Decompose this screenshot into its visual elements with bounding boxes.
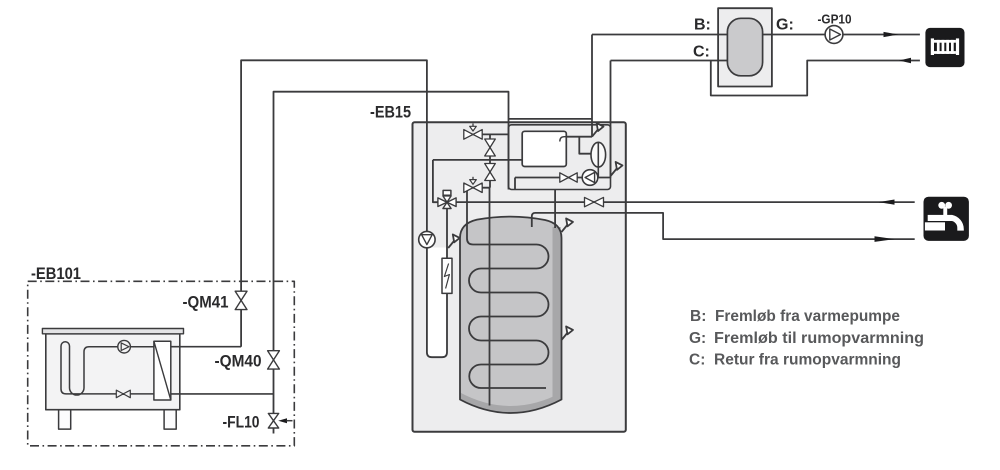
vessel tank	[727, 18, 762, 76]
svg-text:G:: G:	[776, 17, 794, 34]
condenser heat exchanger	[154, 341, 171, 400]
wire: HX return line to 3-way valve	[433, 160, 527, 165]
wire: riser QM41 to EB15 B-line and heater loop	[241, 60, 447, 357]
sensor tank top right	[562, 218, 574, 232]
wire: cold water line through module	[456, 201, 915, 203]
svg-text:Fremløb fra varmepumpe: Fremløb fra varmepumpe	[715, 308, 900, 325]
unit foot left	[59, 410, 71, 429]
air vent (right)	[611, 162, 623, 176]
wire: pump suction line	[515, 178, 611, 190]
shut-off valve on cold line	[585, 197, 604, 206]
3-way shunt valve QN	[438, 190, 456, 208]
arrow from radiator	[899, 58, 911, 63]
wire: bridge pipe above box	[509, 118, 593, 120]
circulation pump (down)	[419, 231, 435, 247]
svg-text:B:: B:	[694, 17, 711, 34]
wire: riser QM40 to EB15 C-line	[274, 92, 509, 434]
svg-text:-FL10: -FL10	[223, 414, 260, 432]
svg-text:-QM40: -QM40	[215, 353, 262, 371]
wire: HX to air-vent junction	[566, 136, 592, 138]
valve in unit	[116, 390, 130, 398]
air vent (inner box top)	[592, 123, 604, 137]
pump GP10	[825, 26, 843, 44]
white channel of heater U-loop	[428, 248, 446, 357]
vent on heater pipe	[448, 234, 460, 248]
arrow to radiator	[884, 32, 899, 37]
module box EB15 (background)	[413, 122, 626, 432]
wire: drop to expansion device	[579, 137, 591, 154]
wire: B line to vessel and radiator	[592, 34, 920, 36]
svg-text:C:: C:	[689, 352, 705, 369]
heat pump unit lid	[42, 329, 183, 334]
svg-text:C:: C:	[693, 44, 710, 61]
safety valve FL10	[268, 413, 292, 428]
vessel box	[718, 8, 772, 86]
charge pump (left)	[582, 170, 598, 186]
inner hydraulic sub-box	[509, 125, 611, 190]
wire: C down-pipe from boiler to pump line	[610, 61, 612, 178]
electric heater	[442, 258, 452, 293]
dashed enclosure box -EB101	[28, 281, 295, 446]
svg-text:G:: G:	[689, 330, 706, 347]
wire: stacked-valve pipe	[489, 134, 491, 187]
heat pump unit body	[46, 334, 180, 410]
wire: B down-pipe from boiler into inner box	[591, 35, 593, 137]
svg-text:Fremløb til rumopvarmning: Fremløb til rumopvarmning	[714, 330, 924, 347]
pump in unit	[118, 340, 131, 353]
wire: pipes out of condenser	[171, 347, 274, 394]
heat exchanger block (white)	[522, 131, 566, 166]
svg-text:Retur fra rumopvarmning: Retur fra rumopvarmning	[714, 352, 901, 369]
evaporator coil + wire: pipes inside unit	[61, 342, 154, 395]
wire: center feed pipe down tank	[489, 188, 491, 406]
wire: C return line radiator to vessel and EB15	[611, 61, 920, 96]
shut-off valve lower (vertical)	[485, 164, 496, 181]
shut-off valve at pump	[560, 173, 577, 182]
radiator icon	[925, 28, 964, 67]
wire: charge pipe into tank top	[554, 190, 556, 229]
svg-text:B:: B:	[690, 308, 706, 325]
sensor tank right middle	[562, 326, 574, 340]
valve QM40	[268, 351, 280, 369]
wire: drain valve line	[467, 187, 490, 189]
valve QM41	[235, 291, 247, 309]
svg-text:-QM41: -QM41	[183, 294, 229, 312]
wire: safety-valve manifold line	[464, 133, 509, 135]
tank (hot water cylinder)	[460, 217, 562, 413]
svg-text:-GP10: -GP10	[818, 12, 852, 27]
wire: hot water out of tank	[532, 213, 915, 239]
arrow to tap (hot)	[875, 236, 895, 242]
expansion device (ellipse)	[591, 142, 606, 177]
unit foot right	[164, 410, 176, 429]
svg-text:-EB15: -EB15	[370, 103, 411, 122]
drain valve (bottom, with arrow)	[464, 177, 482, 193]
shut-off valve upper (vertical)	[485, 139, 496, 156]
tap icon	[924, 197, 969, 241]
svg-text:-EB101: -EB101	[31, 264, 81, 283]
coil: DHW serpentine inside tank	[467, 188, 549, 388]
safety valve FL (top)	[464, 124, 482, 140]
arrow from tap (cold)	[879, 200, 895, 205]
